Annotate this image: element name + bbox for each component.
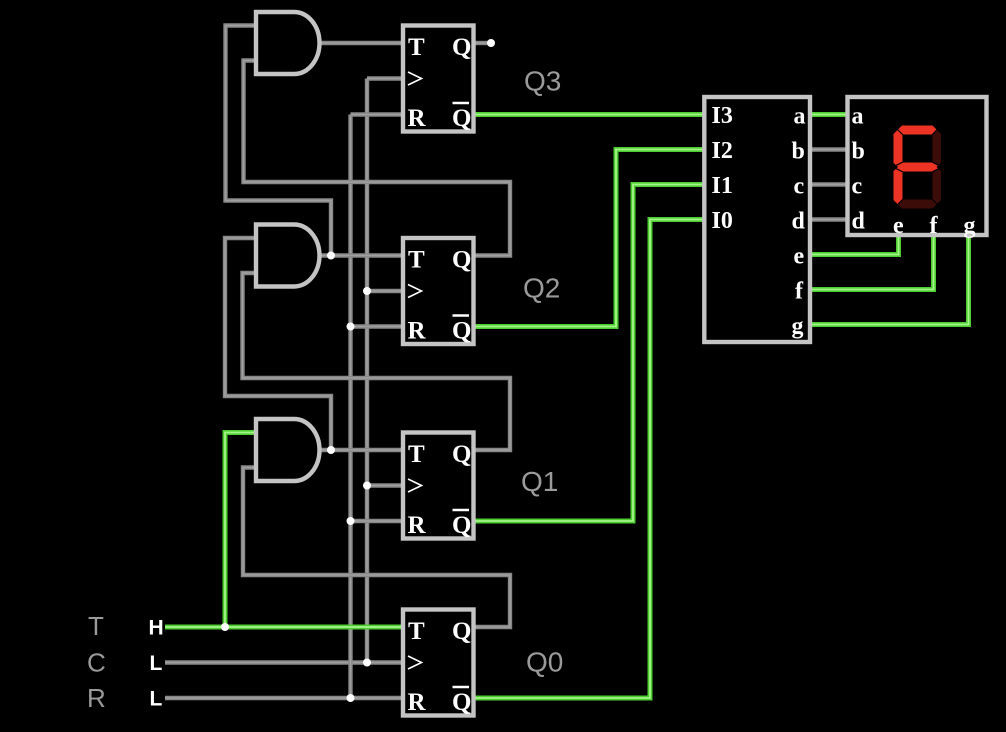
wire gate U2 out to gate U3 input chain [226,26,332,256]
7seg segment f (lit) [893,125,903,167]
svg-text:R: R [408,318,427,345]
wire decoder f to display [810,235,934,290]
wire reset stub FF3 [351,112,404,116]
wire decoder a to display [810,112,848,117]
wire Q2 not-Q to decoder I2 [474,150,705,327]
junction dot reset bus FF1 [347,517,355,525]
wire gate U3 output to FF3 T [320,41,404,45]
svg-text:Q: Q [452,34,471,61]
and-gate U2 [256,225,319,287]
svg-text:Q0: Q0 [526,647,563,678]
and-gate U1 [256,419,320,481]
junction dot reset bus FF2 [347,323,355,331]
7seg corner chamfer top-left [893,125,903,135]
flip-flop FF1 [403,433,474,540]
svg-text:L: L [150,688,163,711]
wire clock stub FF2 [367,289,403,293]
svg-text:R: R [87,683,106,713]
svg-text:T: T [408,441,425,468]
svg-text:Q: Q [452,105,471,132]
7seg corner chamfer bottom-left [893,200,903,210]
svg-text:I1: I1 [712,173,733,199]
junction dot clock bus FF1 [363,482,371,490]
svg-text:R: R [408,105,427,132]
7seg corner chamfer top-right [932,125,942,135]
wire gate U1 output to FF1 T [320,448,404,452]
svg-text:Q: Q [452,441,471,468]
wire gate U2 output to FF2 T [320,253,404,257]
svg-text:e: e [794,244,805,270]
flip-flop FF2 [403,238,474,345]
svg-text:b: b [792,139,805,165]
junction dot Q3 output [487,39,495,47]
7seg segment c (off) [932,167,942,209]
svg-text:Q: Q [452,512,471,539]
wire T input row (high) [165,625,403,630]
svg-text:Q3: Q3 [524,66,561,97]
and-gate U3 [256,12,319,74]
wire reset bus vertical [348,115,352,699]
junction dot clock bus FF2 [363,287,371,295]
svg-text:T: T [408,618,425,645]
wire decoder d to display [810,217,848,221]
svg-text:b: b [852,139,865,165]
wire Q0 feedback to gate U1 [243,468,510,628]
junction dot reset bus FF0 [347,694,355,702]
wire T branch to gate U1 input [225,433,256,628]
svg-text:Q: Q [452,689,471,716]
wire Q3 output stub [474,41,490,45]
svg-text:g: g [792,314,804,340]
flip-flop FF0 [403,610,474,717]
svg-text:T: T [408,34,425,61]
junction dot gate U1 output [327,446,335,454]
wire R input row [165,696,403,700]
decoder U4 (hex to 7seg) [704,97,810,342]
wire decoder g to display [810,235,969,325]
7seg segment e (lit) [893,167,903,209]
svg-text:C: C [87,648,106,678]
svg-text:Q: Q [452,247,471,274]
flip-flop FF3 [403,26,474,133]
seven-segment display U5 [848,97,987,239]
svg-text:Q1: Q1 [521,466,558,497]
svg-text:H: H [149,617,164,640]
7seg corner chamfer bottom-right [932,200,942,210]
7seg notch middle-right [937,163,942,172]
svg-text:g: g [964,213,976,239]
svg-text:R: R [408,512,427,539]
7seg notch middle-left [893,163,898,172]
svg-text:Q2: Q2 [523,273,560,304]
wire decoder c to display [810,182,848,186]
svg-text:f: f [930,213,939,239]
svg-text:Q: Q [452,318,471,345]
svg-text:d: d [792,209,806,235]
7seg segment g (lit) [893,162,942,172]
7seg segment d (off) [893,199,942,209]
wire clock stub FF3 [367,76,403,80]
wire reset stub FF1 [351,519,404,523]
svg-text:I0: I0 [712,208,733,234]
svg-text:a: a [852,104,864,130]
svg-text:Q: Q [452,618,471,645]
svg-text:c: c [794,174,805,200]
7seg segment b (off) [932,125,942,167]
junction dot T branch [221,623,229,631]
svg-text:d: d [852,209,866,235]
wire C input row [165,660,403,664]
junction dot clock bus FF0 [363,659,371,667]
wire decoder b to display [810,147,848,151]
svg-text:I2: I2 [712,138,733,164]
svg-text:L: L [150,652,163,675]
wire decoder e to display [810,235,899,255]
wire clock bus vertical [365,79,369,663]
wire Q1 feedback to gate U2 [243,273,511,450]
svg-text:f: f [795,279,804,305]
junction dot gate U2 output [327,252,335,260]
svg-text:I3: I3 [712,103,733,129]
wire Q2 feedback to gate U3 [244,61,511,256]
wire Q0 not-Q to decoder I0 [474,220,705,699]
svg-text:e: e [893,213,904,239]
wire clock stub FF1 [367,483,403,487]
svg-text:R: R [408,689,427,716]
wire reset stub FF2 [351,324,404,328]
svg-text:T: T [408,247,425,274]
svg-text:T: T [88,611,104,641]
svg-text:c: c [852,174,863,200]
wire gate U1 out to gate U2 input chain [225,238,331,450]
wire Q3 not-Q to decoder I3 [474,112,705,117]
7seg segment a (lit) [893,125,942,135]
wire Q1 not-Q to decoder I1 [474,185,705,522]
svg-text:a: a [794,104,806,130]
